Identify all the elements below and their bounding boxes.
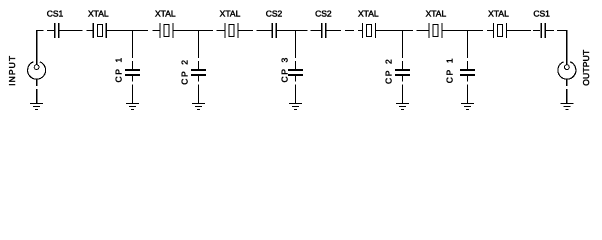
- capacitor CP3: [288, 70, 303, 75]
- svg-text:INPUT: INPUT: [7, 55, 17, 86]
- wire: [36, 31, 38, 65]
- capacitor CS2: [272, 23, 278, 38]
- wire: [467, 31, 469, 59]
- wire: [546, 30, 554, 32]
- wire: [132, 76, 134, 82]
- wire: [566, 31, 568, 65]
- wire: [36, 30, 44, 32]
- wire: [295, 76, 297, 82]
- capacitor CP2: [191, 70, 206, 75]
- wire: [467, 85, 469, 104]
- wire: [376, 30, 414, 32]
- wire: [217, 30, 226, 32]
- wire: [47, 30, 54, 32]
- svg-text:XTAL: XTAL: [220, 8, 241, 18]
- wire: [487, 30, 494, 32]
- capacitor CS1: [54, 23, 60, 38]
- wire: [153, 30, 161, 32]
- wire: [507, 30, 532, 32]
- wire: [295, 31, 297, 59]
- wire: [417, 30, 430, 32]
- wire: [358, 30, 363, 32]
- wire: [402, 61, 404, 70]
- wire: [467, 76, 469, 82]
- ground under CP2: [396, 104, 409, 110]
- wire: [198, 76, 200, 82]
- wire: [238, 30, 253, 32]
- crystal XTAL: [93, 23, 106, 38]
- capacitor CP1: [125, 70, 140, 75]
- crystal XTAL: [429, 23, 442, 38]
- wire: [257, 30, 272, 32]
- ground under CP1: [461, 104, 474, 110]
- ground under input: [30, 104, 43, 110]
- wire: [402, 85, 404, 104]
- wire: [442, 30, 483, 32]
- wire: [345, 30, 354, 32]
- wire: [566, 89, 568, 104]
- svg-text:XTAL: XTAL: [426, 8, 447, 18]
- svg-text:CP1: CP1: [445, 57, 455, 83]
- capacitor CS2: [321, 23, 327, 38]
- svg-text:XTAL: XTAL: [155, 8, 176, 18]
- wire: [106, 30, 148, 32]
- wire: [198, 61, 200, 70]
- wire: [132, 31, 134, 59]
- capacitor CP1: [460, 70, 475, 75]
- wire: [132, 85, 134, 104]
- wire: [36, 79, 38, 86]
- svg-text:CP1: CP1: [114, 56, 124, 82]
- wire: [311, 30, 322, 32]
- wire: [557, 30, 567, 32]
- wire: [173, 30, 213, 32]
- svg-text:CP3: CP3: [280, 56, 290, 82]
- connector J2 output: [558, 62, 576, 79]
- wire: [87, 30, 94, 32]
- wire: [36, 89, 38, 104]
- svg-text:OUTPUT: OUTPUT: [581, 50, 591, 86]
- svg-text:CS1: CS1: [47, 8, 64, 18]
- wire: [198, 31, 200, 59]
- wire: [132, 61, 134, 70]
- crystal XTAL: [363, 23, 376, 38]
- capacitor CP2: [395, 70, 410, 75]
- crystal XTAL: [160, 23, 173, 38]
- svg-text:XTAL: XTAL: [358, 8, 379, 18]
- wire: [198, 85, 200, 104]
- svg-text:XTAL: XTAL: [88, 8, 109, 18]
- connector J1 input: [28, 62, 46, 79]
- svg-text:CS2: CS2: [315, 8, 332, 18]
- wire: [467, 61, 469, 70]
- svg-text:CS1: CS1: [533, 8, 550, 18]
- svg-text:XTAL: XTAL: [488, 8, 509, 18]
- crystal XTAL: [494, 23, 507, 38]
- wire: [402, 76, 404, 82]
- wire: [59, 30, 83, 32]
- ground under CP1: [126, 104, 139, 110]
- wire: [295, 85, 297, 104]
- svg-text:CS2: CS2: [266, 8, 283, 18]
- ground under CP3: [289, 104, 302, 110]
- ground under output: [560, 104, 573, 110]
- wire: [276, 30, 307, 32]
- ground under CP2: [192, 104, 205, 110]
- wire: [326, 30, 341, 32]
- wire: [533, 30, 540, 32]
- crystal XTAL: [225, 23, 238, 38]
- svg-text:CP2: CP2: [180, 58, 190, 84]
- wire: [566, 79, 568, 86]
- wire: [402, 31, 404, 59]
- svg-text:CP2: CP2: [384, 58, 394, 84]
- wire: [295, 61, 297, 70]
- capacitor CS1: [540, 23, 546, 38]
